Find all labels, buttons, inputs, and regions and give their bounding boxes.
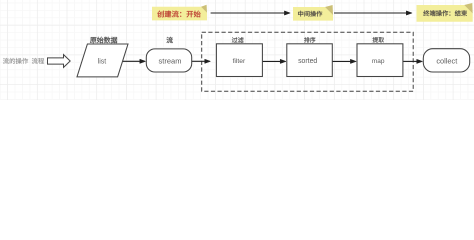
svg-text:map: map [372,58,385,65]
svg-text:collect: collect [436,57,457,66]
svg-text:list: list [98,58,107,65]
svg-text:filter: filter [233,58,246,65]
svg-text:stream: stream [159,57,182,66]
svg-text:sorted: sorted [298,58,317,65]
